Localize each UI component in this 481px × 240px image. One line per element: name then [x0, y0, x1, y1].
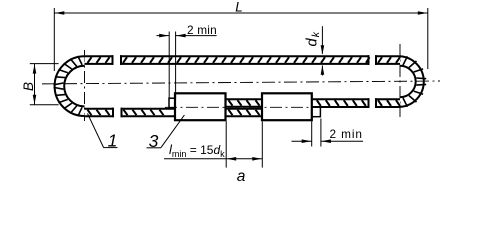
label L [235, 0, 243, 15]
rope left end bend [54, 56, 85, 116]
label a (figure) [237, 168, 246, 185]
label 3 [149, 131, 159, 151]
wire top band left stub [85, 55, 114, 65]
label lmin = 15dk [169, 142, 225, 159]
svg-text:2 min: 2 min [187, 23, 217, 37]
centerline main horizontal axis [42, 81, 440, 84]
dimension L line [54, 11, 428, 15]
centerline left loop vertical [84, 50, 86, 121]
wire bottom band left stub [85, 108, 115, 118]
leader item 3 [147, 115, 185, 148]
svg-text:1: 1 [108, 130, 118, 150]
label 2 min bottom [330, 127, 363, 141]
dimension 2min top extension lines [169, 32, 175, 100]
svg-text:a: a [237, 168, 246, 185]
dimension 2min top line [157, 34, 217, 38]
wire bottom band right stub [375, 98, 400, 108]
label 2 min top [187, 23, 217, 37]
leader item 1 [88, 114, 118, 148]
wire top band main [120, 55, 370, 65]
svg-text:3: 3 [149, 131, 159, 151]
rope right end bend [400, 56, 426, 107]
dimension 2min bottom extension lines [312, 119, 321, 147]
rope overlap lower strand [226, 108, 263, 118]
centerline right loop vertical [399, 44, 401, 117]
label B [21, 82, 36, 91]
dimension lmin line [164, 157, 262, 161]
dimension L extension line left [53, 8, 55, 71]
label 1 [108, 130, 118, 150]
rope overlap upper strand [226, 98, 263, 108]
svg-text:L: L [235, 0, 243, 15]
dimension B extension lines [30, 64, 59, 105]
dimension B line [33, 64, 37, 105]
sleeve 2 [262, 93, 312, 120]
dimension lmin extension lines [226, 121, 262, 167]
rope end overhang right [312, 107, 321, 117]
svg-text:B: B [21, 82, 36, 91]
wire bottom band right segment [312, 98, 370, 108]
label dk [305, 31, 323, 46]
wire top band right stub [375, 55, 400, 65]
dimension 2min bottom line [292, 139, 364, 143]
dimension dk arrows [321, 26, 325, 75]
dimension L extension line right [427, 8, 429, 69]
wire bottom band left segment [121, 108, 176, 118]
sleeve 1 (item 3) [175, 93, 226, 120]
centerline splice bundle [165, 106, 327, 108]
rope end overhang left [169, 98, 175, 108]
svg-text:2 min: 2 min [330, 127, 363, 141]
